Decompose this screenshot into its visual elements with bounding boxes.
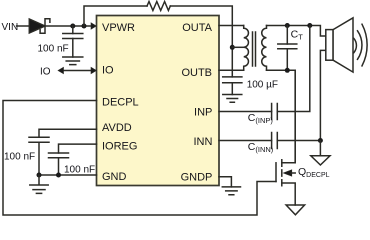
transistor Q_DECPL source connection xyxy=(282,183,295,205)
svg-text:100 nF: 100 nF xyxy=(64,165,95,176)
svg-text:OUTA: OUTA xyxy=(182,22,212,34)
svg-text:VIN: VIN xyxy=(2,22,19,33)
svg-text:100 nF: 100 nF xyxy=(38,44,69,55)
capacitor C3 100 nF plates xyxy=(29,137,49,142)
svg-text:100 nF: 100 nF xyxy=(4,152,35,163)
wire speaker lower terminal down to INN node xyxy=(320,50,325,140)
wire secondary top to speaker xyxy=(267,26,326,37)
wire VIN input xyxy=(17,25,30,27)
capacitor C4 lower lead xyxy=(58,158,60,175)
diode D1 schottky xyxy=(29,19,45,33)
wire DECPL to bottom rail to gate xyxy=(3,101,276,216)
svg-text:IO: IO xyxy=(40,67,51,78)
svg-text:QDECPL: QDECPL xyxy=(298,166,330,179)
wire IO bidirectional xyxy=(63,70,91,72)
transformer T1 primary winding xyxy=(244,26,249,71)
svg-text:IO: IO xyxy=(102,65,114,77)
svg-text:GND: GND xyxy=(102,171,127,183)
transistor Q_DECPL drain connection xyxy=(282,70,295,163)
ground symbol GNDP xyxy=(222,187,240,195)
pin arrow into VPWR xyxy=(91,23,96,29)
wire OUTB to transformer xyxy=(219,69,244,71)
wire center tap to primary xyxy=(232,46,243,48)
transistor Q_DECPL body arrow xyxy=(283,170,292,176)
ground symbol triangle at INN node xyxy=(311,141,330,166)
svg-text:OUTB: OUTB xyxy=(181,67,212,79)
svg-text:C(INP): C(INP) xyxy=(248,112,274,125)
speaker LS1 sound waves xyxy=(354,24,367,66)
svg-text:INP: INP xyxy=(194,107,212,119)
wire GND rail xyxy=(39,174,97,176)
svg-text:AVDD: AVDD xyxy=(102,122,132,134)
transformer T1 secondary winding xyxy=(262,26,267,71)
node junction dot on VPWR line (cap tap) xyxy=(70,24,75,29)
node junction dot on VPWR line (feedback tap) xyxy=(82,24,87,29)
node junction dot center tap xyxy=(230,45,235,50)
wire GNDP to ground xyxy=(219,177,231,187)
wire resistor to center-tap line xyxy=(170,6,232,77)
node junction dot INP feed xyxy=(307,23,312,28)
pin arrow IO left xyxy=(58,67,64,73)
capacitor C3 lower lead xyxy=(38,142,40,175)
node junction dot C3 to rail xyxy=(37,173,42,178)
capacitor C1 100 nF plates xyxy=(63,34,83,39)
resistor R1 xyxy=(147,2,170,11)
capacitor C(INP) plates xyxy=(272,104,278,120)
speaker LS1 driver box xyxy=(326,30,333,61)
wire INN through C(INN) xyxy=(219,140,320,142)
wire secondary bottom xyxy=(267,70,296,163)
svg-text:GNDP: GNDP xyxy=(181,172,213,184)
wire feedback top run with resistor xyxy=(84,6,147,26)
capacitor C1 100 nF lead xyxy=(72,26,74,34)
capacitor C1 lower lead xyxy=(72,39,74,58)
IC U1 amplifier box xyxy=(97,16,220,186)
capacitor CT leads xyxy=(286,26,288,71)
node junction dot CT bottom xyxy=(285,68,290,73)
wire diode to VPWR pin xyxy=(46,25,92,27)
wire OUTA to transformer xyxy=(219,25,244,27)
capacitor C2 100 uF plates xyxy=(223,77,242,83)
svg-text:C(INN): C(INN) xyxy=(248,141,274,154)
wire IOREG xyxy=(59,144,97,153)
ground symbol triangle at source xyxy=(286,205,305,215)
wire AVDD xyxy=(39,129,97,137)
transistor Q_DECPL channel dashes xyxy=(281,160,283,186)
pin arrow IO right xyxy=(91,67,96,73)
svg-text:100 µF: 100 µF xyxy=(247,80,278,91)
node junction dot CT top xyxy=(285,23,290,28)
svg-text:VPWR: VPWR xyxy=(102,22,135,34)
node junction dot C4 to rail xyxy=(56,173,61,178)
ground symbol under C2 xyxy=(223,95,242,103)
node junction dot INN to speaker return xyxy=(318,138,323,143)
ground symbol under C1 xyxy=(63,57,83,65)
transformer T1 core xyxy=(253,32,256,66)
ground symbol below GND rail xyxy=(30,175,48,193)
svg-text:IOREG: IOREG xyxy=(102,141,137,153)
capacitor C(INN) plates xyxy=(272,133,278,149)
svg-text:CT: CT xyxy=(291,29,304,42)
speaker LS1 horn xyxy=(333,18,353,72)
svg-text:DECPL: DECPL xyxy=(102,97,139,109)
transistor Q_DECPL gate bar xyxy=(275,163,277,182)
svg-text:INN: INN xyxy=(193,136,212,148)
capacitor CT plates xyxy=(278,44,297,49)
capacitor C2 lower lead xyxy=(231,83,233,95)
capacitor C4 100 nF plates xyxy=(49,153,69,158)
wire INP through C(INP) xyxy=(219,26,310,112)
